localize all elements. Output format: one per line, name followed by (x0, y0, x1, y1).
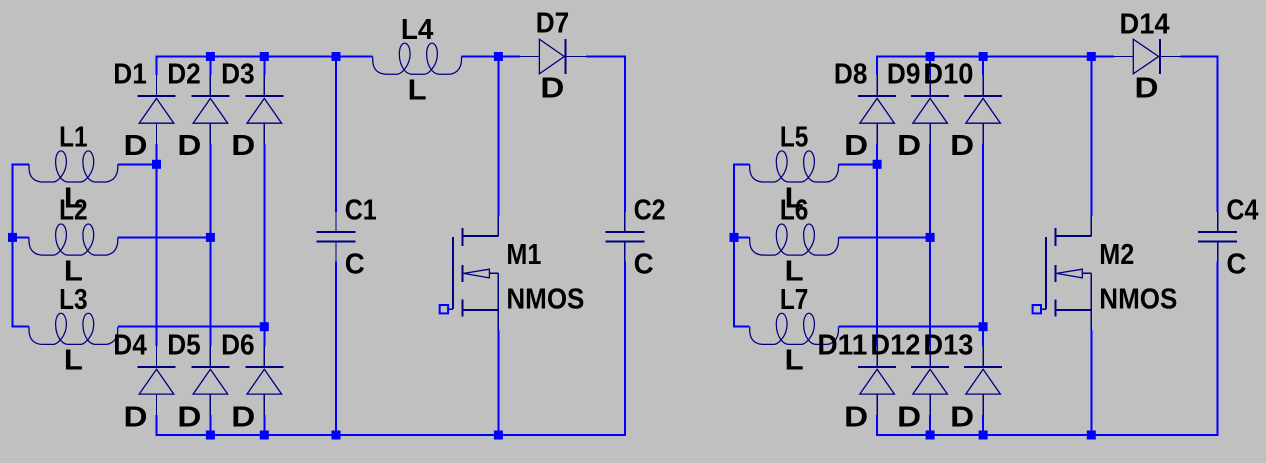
svg-text:D: D (231, 401, 255, 433)
junction L7 / D10-D13 column (979, 322, 988, 331)
svg-text:D: D (124, 401, 148, 433)
wire D10/D13 column (982, 57, 984, 76)
svg-text:D7: D7 (536, 7, 570, 39)
junction bottom rail / D12 (926, 431, 935, 440)
wire M2 drain column (1090, 57, 1092, 217)
wire D8/D11 column (876, 56, 878, 76)
junction top rail / D9 (926, 52, 935, 61)
wire C4 column top (1217, 56, 1219, 213)
inductor L3 coil (29, 313, 118, 344)
svg-text:M2: M2 (1099, 239, 1134, 271)
svg-text:D: D (897, 401, 921, 433)
svg-text:D5: D5 (167, 330, 201, 362)
svg-text:C: C (345, 249, 365, 281)
svg-text:D: D (540, 73, 564, 105)
svg-text:D10: D10 (923, 58, 973, 90)
svg-text:L3: L3 (59, 284, 88, 316)
diode D8 (858, 75, 896, 144)
junction left bus / L2 (8, 233, 17, 242)
wire C2 column top (624, 56, 626, 213)
junction top rail / D2 (206, 52, 215, 61)
junction bottom rail / M2 source (1087, 431, 1096, 440)
wire M1 drain column (497, 57, 499, 217)
junction top rail / D3 (260, 52, 269, 61)
wire C2 column bottom (624, 261, 626, 436)
wire L6 right lead (839, 236, 931, 238)
wire D9 to D12 column mid (929, 144, 931, 346)
wire left input bus (12, 163, 14, 327)
wire D2 to D5 column mid (209, 144, 211, 346)
wire top rail right circuit (877, 56, 1091, 58)
svg-text:D: D (231, 130, 255, 162)
diode D1 (138, 75, 176, 144)
svg-text:D1: D1 (113, 58, 147, 90)
svg-text:D: D (897, 130, 921, 162)
wire L3 right lead (118, 326, 264, 328)
svg-text:L4: L4 (401, 14, 434, 46)
svg-text:L: L (64, 255, 83, 287)
wire L2 right lead (118, 236, 211, 238)
diode D6 (245, 346, 283, 415)
inductor L1 coil (29, 151, 118, 182)
diode D10 (964, 75, 1002, 144)
wire L5 left lead (733, 163, 750, 165)
diode D11 (858, 346, 896, 415)
svg-text:L1: L1 (59, 122, 88, 154)
capacitor C4 (1198, 212, 1237, 261)
junction bottom rail / D6 (260, 431, 269, 440)
svg-text:D6: D6 (221, 330, 255, 362)
svg-text:D8: D8 (834, 58, 868, 90)
diode D4 (138, 346, 176, 415)
diode D3 (245, 75, 283, 144)
capacitor C2 (605, 212, 644, 261)
wire D3/D6 column (263, 57, 265, 76)
svg-text:L: L (785, 255, 804, 287)
svg-text:D3: D3 (221, 58, 255, 90)
svg-text:D: D (844, 130, 868, 162)
junction bottom rail / D5 (206, 431, 215, 440)
svg-text:D2: D2 (167, 58, 201, 90)
diode D12 (911, 346, 949, 415)
diode D9 (911, 75, 949, 144)
wire D6 column bottom (263, 415, 265, 435)
svg-text:D: D (844, 401, 868, 433)
diode D13 (964, 346, 1002, 415)
diode D14 (1113, 39, 1181, 74)
svg-text:NMOS: NMOS (506, 283, 584, 315)
junction bottom rail / M1 source (494, 431, 503, 440)
svg-text:C: C (1226, 249, 1246, 281)
wire D1 to D4 column mid (156, 144, 158, 346)
wire right input bus (733, 163, 735, 327)
wire L5 right lead (839, 163, 878, 165)
svg-text:D: D (124, 130, 148, 162)
inductor L7 coil (750, 313, 839, 344)
wire L1 right lead (118, 163, 157, 165)
svg-text:L6: L6 (780, 195, 809, 227)
junction L5 / D8-D11 column (873, 160, 882, 169)
wire top rail left circuit (157, 56, 373, 58)
junction bottom rail / D13 (979, 431, 988, 440)
svg-text:D: D (177, 130, 201, 162)
junction L6 / D9-D12 column (926, 233, 935, 242)
wire D10 to D13 column mid (982, 144, 984, 346)
wire D14 to C4 top (1180, 56, 1218, 58)
svg-text:D4: D4 (113, 330, 147, 362)
svg-text:M1: M1 (506, 239, 541, 271)
wire D2/D5 column (209, 57, 211, 76)
wire D13 column bottom (982, 415, 984, 435)
wire top rail left circuit (L4 to D7) (462, 56, 521, 58)
wire D7 to C2 top (586, 56, 626, 58)
junction L3 / D3-D6 column (260, 322, 269, 331)
junction top rail / D10 (979, 52, 988, 61)
wire L7 left lead (733, 326, 750, 328)
diode D2 (191, 75, 229, 144)
svg-text:L: L (408, 75, 427, 107)
svg-text:D: D (177, 401, 201, 433)
svg-text:L: L (785, 345, 804, 377)
svg-text:L: L (64, 345, 83, 377)
svg-text:C: C (634, 249, 654, 281)
wire M1 source column (497, 330, 499, 435)
svg-text:D: D (950, 401, 974, 433)
wire C4 column bottom (1217, 261, 1219, 436)
capacitor C1 (317, 212, 356, 261)
junction top rail / M2 drain (1087, 52, 1096, 61)
junction bottom rail / C1 (332, 431, 341, 440)
inductor L6 coil (750, 224, 839, 255)
svg-text:C4: C4 (1226, 194, 1258, 226)
wire L7 right lead (839, 326, 984, 328)
svg-text:L7: L7 (780, 284, 809, 316)
junction top rail / C1 (332, 52, 341, 61)
wire D5 column bottom (209, 415, 211, 435)
wire C1 column top (335, 57, 337, 213)
wire bottom rail right circuit (876, 434, 1218, 436)
wire L1 left lead (12, 163, 30, 165)
junction top rail / M1 drain (494, 52, 503, 61)
inductor L5 coil (750, 151, 839, 182)
diode D5 (191, 346, 229, 415)
junction L1 / D1-D4 column (152, 160, 161, 169)
transistor M1 (NMOS) (440, 216, 499, 330)
inductor L2 coil (29, 224, 118, 255)
diode D7 (519, 39, 586, 74)
wire D1/D4 column (156, 56, 158, 76)
wire C1 column bottom (335, 261, 337, 435)
svg-text:L2: L2 (59, 195, 88, 227)
svg-text:D14: D14 (1120, 8, 1170, 40)
junction L2 / D2-D5 column (206, 233, 215, 242)
wire L2 left lead (12, 236, 30, 238)
svg-text:D12: D12 (870, 330, 920, 362)
junction right bus / L6 (730, 233, 739, 242)
wire D8 to D11 column mid (876, 144, 878, 346)
wire D11 column bottom (876, 415, 878, 435)
wire D3 to D6 column mid (263, 144, 265, 346)
transistor M2 (NMOS) (1033, 216, 1092, 330)
wire D9/D12 column (929, 57, 931, 76)
wire L3 left lead (12, 326, 30, 328)
wire M2 source column (1090, 330, 1092, 435)
svg-text:D13: D13 (923, 330, 973, 362)
wire D12 column bottom (929, 415, 931, 435)
wire M2 drain to D14 (1091, 56, 1114, 58)
svg-text:D: D (950, 130, 974, 162)
svg-text:C2: C2 (634, 194, 666, 226)
svg-text:D9: D9 (887, 58, 921, 90)
svg-text:C1: C1 (345, 194, 377, 226)
svg-text:D11: D11 (817, 330, 867, 362)
wire D4 column bottom (156, 415, 158, 435)
wire bottom rail left circuit (156, 434, 625, 436)
svg-text:D: D (1135, 73, 1159, 105)
wire L6 left lead (733, 236, 750, 238)
inductor L4 coil (373, 43, 462, 74)
svg-text:L5: L5 (780, 122, 809, 154)
svg-text:NMOS: NMOS (1099, 283, 1177, 315)
